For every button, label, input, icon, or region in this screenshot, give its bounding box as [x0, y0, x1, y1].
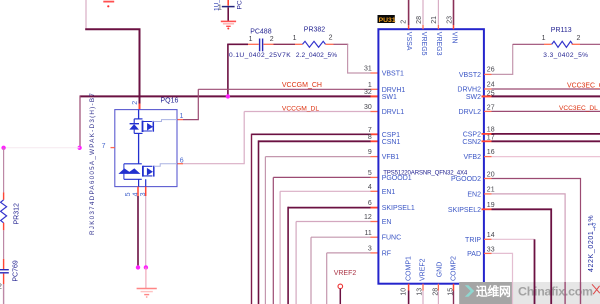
node VREF2 terminal — [334, 270, 357, 304]
wire VFB1 — [265, 157, 371, 304]
svg-text:2: 2 — [329, 35, 333, 42]
wire top-left corner to PQ16 pin2 — [85, 29, 139, 104]
svg-text:16: 16 — [487, 149, 495, 156]
svg-text:COMP2: COMP2 — [450, 256, 457, 281]
IC left pin numbers — [364, 66, 372, 253]
svg-text:3: 3 — [368, 246, 372, 253]
wire PC488 to PR382 — [263, 43, 273, 45]
resistor PR382 — [293, 26, 338, 59]
transistor PQ16 (dual N-MOSFET) — [89, 92, 184, 235]
svg-text:PR382: PR382 — [304, 26, 326, 33]
wire PC488 left segment — [227, 43, 248, 45]
svg-text:VIN: VIN — [450, 32, 457, 44]
wire RF — [327, 253, 371, 304]
svg-text:1: 1 — [293, 35, 297, 42]
pin 7 stub — [111, 147, 115, 149]
svg-text:SW2: SW2 — [466, 94, 481, 101]
wire top-left vertical — [85, 0, 87, 29]
wire DRVH1 net — [198, 88, 371, 90]
svg-text:27: 27 — [487, 104, 495, 111]
wire CSN1 — [259, 140, 371, 142]
MOSFET Q-top inside PQ16 — [130, 110, 177, 164]
svg-text:EN1: EN1 — [382, 189, 396, 196]
svg-text:PGOOD2: PGOOD2 — [451, 176, 481, 183]
wire VBST2 to PR113 — [484, 73, 492, 75]
svg-text:2: 2 — [270, 36, 274, 43]
wire PGOOD2 — [484, 178, 492, 180]
svg-text:24: 24 — [487, 81, 495, 88]
svg-text:2: 2 — [132, 101, 139, 105]
svg-text:23: 23 — [447, 16, 454, 24]
svg-text:7: 7 — [368, 127, 372, 134]
wire PGOOD1 — [273, 177, 371, 304]
wire DRVH2 — [484, 88, 492, 90]
wire CSP2 — [482, 133, 492, 135]
svg-text:RJK0374DPA6005A_WPAK-D3(H)-B7: RJK0374DPA6005A_WPAK-D3(H)-B7 — [89, 92, 96, 235]
svg-text:1U_0603: 1U_0603 — [214, 0, 221, 11]
node dot left — [77, 146, 81, 150]
MOSFET Q-bottom inside PQ16 — [119, 164, 177, 187]
IC top pin names (rotated) — [405, 32, 457, 56]
wire PQ16 pin2 red stub — [139, 104, 141, 110]
svg-text:COMP1: COMP1 — [405, 256, 412, 281]
svg-text:DRVL2: DRVL2 — [459, 109, 482, 116]
wire SKIPSEL1 — [288, 207, 371, 209]
wire EN — [296, 222, 371, 304]
svg-text:17: 17 — [487, 134, 495, 141]
ground (top-center) — [221, 21, 236, 29]
ground (top-left partial) — [103, 2, 114, 8]
svg-text:31: 31 — [364, 66, 372, 73]
resistor PR113 — [542, 27, 589, 59]
svg-text:VCCGM_CH: VCCGM_CH — [282, 82, 322, 89]
wire VIN branch vertical x228 down to SW junction — [227, 44, 229, 96]
wire EN2 — [484, 193, 492, 195]
wire PQ16 source stubs to ground — [138, 187, 146, 196]
capacitor PC769 — [0, 260, 19, 290]
node dot far-left — [1, 146, 5, 150]
svg-text:CSN1: CSN1 — [382, 139, 401, 146]
svg-text:迅维网: 迅维网 — [476, 285, 511, 299]
svg-text:VBST1: VBST1 — [382, 71, 404, 78]
wire VREF2 bottom pin — [422, 284, 424, 291]
svg-text:2: 2 — [400, 20, 407, 24]
svg-text:7: 7 — [102, 143, 106, 150]
svg-text:GND: GND — [437, 262, 444, 278]
wire CSN2 — [482, 140, 492, 142]
ground (bottom-left) — [137, 289, 157, 298]
svg-text:DRVH1: DRVH1 — [382, 87, 406, 94]
svg-text:1: 1 — [249, 36, 253, 43]
svg-text:2: 2 — [577, 35, 581, 42]
wire PR113 right — [572, 43, 580, 45]
svg-text:10: 10 — [401, 288, 408, 296]
IC refdes PU31 highlighted — [378, 15, 396, 24]
capacitor PC488 — [229, 29, 291, 59]
svg-text:0.1U_0402_25V7K: 0.1U_0402_25V7K — [229, 52, 291, 59]
wire VFB2 — [484, 156, 492, 158]
svg-text:SKIPSEL1: SKIPSEL1 — [382, 205, 415, 212]
svg-text:PR113: PR113 — [551, 27, 572, 34]
svg-text:2: 2 — [0, 284, 2, 291]
wire verticals re-drawn over watermark — [512, 282, 514, 304]
wire COMP2 bottom — [453, 284, 455, 291]
svg-text:RF: RF — [382, 250, 391, 257]
wire PAD — [484, 252, 492, 254]
svg-text:21: 21 — [487, 187, 495, 194]
svg-text:3.3_0402_5%: 3.3_0402_5% — [543, 52, 588, 59]
svg-text:PGOOD1: PGOOD1 — [382, 175, 412, 182]
svg-text:30: 30 — [364, 104, 372, 111]
wire FUNC — [311, 237, 371, 304]
svg-text:VBST2: VBST2 — [459, 72, 481, 79]
wire VREG3 top — [437, 0, 439, 25]
svg-text:TRIP: TRIP — [465, 237, 481, 244]
svg-text:VFB1: VFB1 — [382, 154, 400, 161]
svg-text:VCC3EC_DL: VCC3EC_DL — [559, 105, 598, 112]
svg-text:VREF2: VREF2 — [334, 270, 357, 277]
svg-text:VCC3EC_CH: VCC3EC_CH — [567, 83, 600, 90]
svg-text:32: 32 — [364, 89, 372, 96]
svg-text:6: 6 — [368, 200, 372, 207]
node dots at FET source — [136, 265, 140, 269]
wire to ground — [145, 267, 147, 288]
svg-text:EN2: EN2 — [467, 191, 481, 198]
svg-text:PQ16: PQ16 — [161, 98, 179, 105]
svg-text:VREF2: VREF2 — [420, 258, 427, 281]
capacitor PC388 (top, partial) — [214, 0, 244, 21]
svg-text:4: 4 — [368, 184, 372, 191]
IC right pin numbers — [487, 67, 495, 254]
svg-text:9: 9 — [368, 149, 372, 156]
svg-text:12: 12 — [364, 214, 372, 221]
svg-text:5: 5 — [368, 170, 372, 177]
wire DRVL1 net — [244, 111, 371, 113]
svg-text:2: 2 — [593, 223, 597, 230]
wire PR113 left — [513, 43, 544, 45]
wire DRVL2 — [484, 110, 492, 112]
IC bottom pin names (rotated) — [405, 256, 457, 281]
svg-text:28: 28 — [416, 16, 423, 24]
svg-text:5: 5 — [125, 192, 132, 196]
IC bottom pin numbers (rotated) — [401, 288, 455, 296]
svg-text:FUNC: FUNC — [382, 235, 401, 242]
svg-text:VREG3: VREG3 — [435, 32, 442, 56]
wire left column mid — [3, 223, 5, 231]
svg-text:21: 21 — [431, 16, 438, 24]
svg-text:PR312: PR312 — [14, 203, 21, 225]
svg-text:VSSA: VSSA — [405, 32, 412, 51]
svg-text:1: 1 — [542, 35, 546, 42]
op-amp U1 : IC PU31 TPS51220A body — [378, 29, 484, 284]
svg-text:11: 11 — [365, 230, 372, 237]
svg-text:CSN2: CSN2 — [462, 139, 481, 146]
svg-text:14: 14 — [487, 232, 495, 239]
svg-text:DRVL1: DRVL1 — [382, 109, 405, 116]
wire VSSA top — [408, 0, 410, 25]
IC left pin names — [382, 71, 415, 258]
svg-text:2.2_0402_5%: 2.2_0402_5% — [296, 52, 337, 59]
wire left column upper — [3, 148, 5, 193]
wire SW2 — [482, 95, 492, 97]
svg-text:SKIPSEL2: SKIPSEL2 — [448, 207, 481, 214]
svg-text:VREG5: VREG5 — [420, 32, 427, 56]
wire COMP1 bottom — [408, 284, 410, 291]
wire SKIPSEL2 — [482, 208, 492, 210]
resistor PR312 — [1, 200, 21, 225]
svg-text:PU31: PU31 — [379, 17, 396, 24]
svg-text:PC388: PC388 — [237, 0, 244, 10]
svg-text:VCCGM_DL: VCCGM_DL — [282, 105, 319, 112]
IC top pin numbers (rotated) — [400, 16, 453, 24]
IC right pin names — [448, 72, 481, 258]
wire EN1 — [280, 191, 371, 304]
wire left column lower — [3, 274, 5, 284]
no-stuff red cross (bottom right) — [592, 284, 600, 294]
svg-text:Chinafix.com: Chinafix.com — [518, 284, 593, 298]
svg-text:20: 20 — [487, 171, 495, 178]
svg-text:8: 8 — [368, 134, 372, 141]
wire SW1 net (VCCGM_CH) — [80, 95, 371, 97]
node SW junction dot — [226, 94, 230, 98]
svg-text:1: 1 — [368, 82, 372, 89]
svg-text:SW1: SW1 — [382, 94, 397, 101]
svg-text:PAD: PAD — [467, 251, 481, 258]
wire PR382 to VBST1 — [326, 43, 334, 45]
svg-text:CSP1: CSP1 — [382, 132, 400, 139]
svg-text:26: 26 — [487, 67, 495, 74]
wire VREG5 top — [422, 0, 424, 25]
svg-text:PC488: PC488 — [250, 29, 272, 36]
svg-text:6: 6 — [180, 157, 184, 164]
wire faint horizontal snubber link — [4, 147, 80, 149]
svg-text:VFB2: VFB2 — [463, 154, 481, 161]
watermark — [459, 282, 600, 304]
svg-text:DRVH2: DRVH2 — [457, 87, 481, 94]
wire GND bottom pin — [437, 284, 439, 291]
wire VIN top — [453, 0, 455, 25]
svg-text:1: 1 — [180, 113, 184, 120]
wire CSP1 — [252, 133, 371, 135]
svg-text:EN: EN — [382, 219, 392, 226]
svg-text:PC769: PC769 — [12, 260, 19, 282]
wire TRIP — [484, 238, 492, 240]
svg-text:18: 18 — [487, 127, 495, 134]
svg-text:33: 33 — [487, 246, 495, 253]
svg-text:19: 19 — [487, 202, 495, 209]
svg-text:CSP2: CSP2 — [463, 131, 481, 138]
